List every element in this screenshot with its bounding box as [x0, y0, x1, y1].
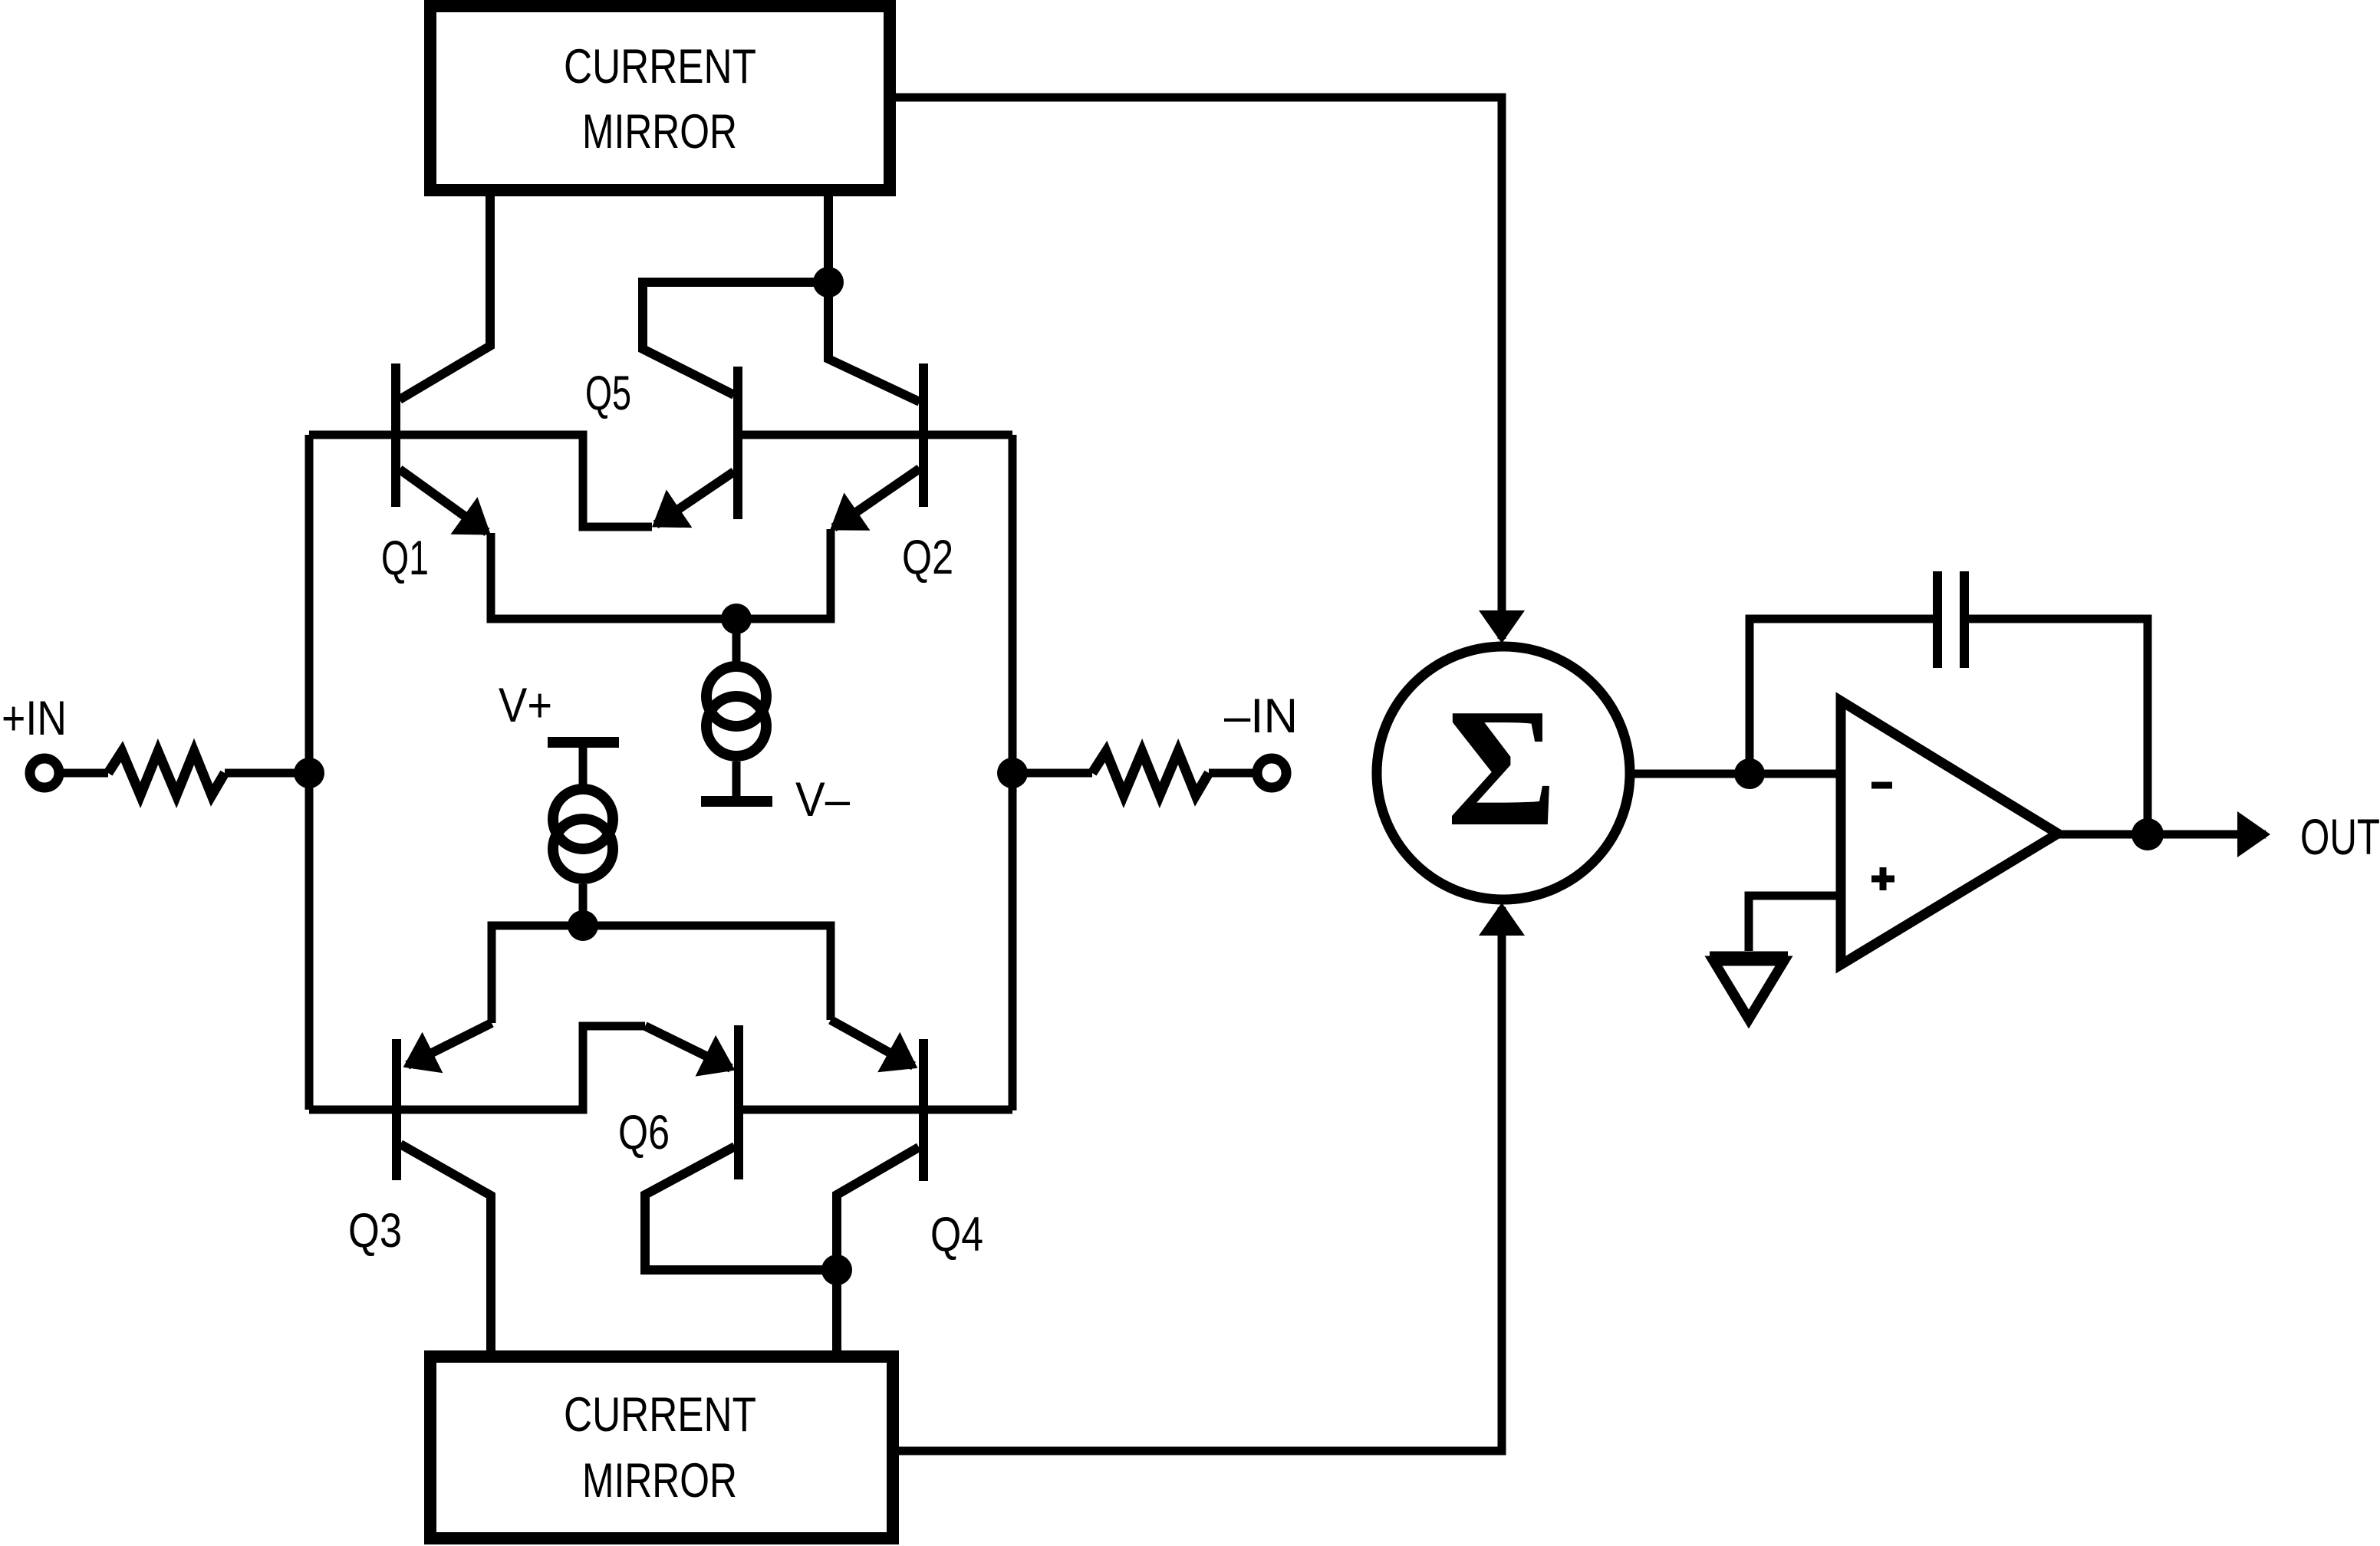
- wire from -IN node: [1012, 769, 1092, 778]
- svg-text:V–: V–: [795, 773, 850, 827]
- node +IN rail: [294, 758, 324, 788]
- node: bottom emitter junction: [568, 910, 598, 941]
- svg-text:Q4: Q4: [930, 1208, 983, 1261]
- wire: bottom base rail right segment: [734, 1106, 1012, 1114]
- node: Q4 collector junction: [821, 1255, 852, 1285]
- current mirror box (bottom): [430, 1357, 893, 1538]
- wire: bottom emitter rail: [492, 926, 831, 1023]
- wire: non-inverting input to ground: [1749, 896, 1841, 951]
- node: output junction: [2131, 818, 2164, 850]
- resistor R2 (-IN): [1092, 752, 1209, 795]
- wire to +IN node: [225, 769, 309, 778]
- wire: bottom box right to sigma (horizontal): [897, 947, 1502, 1451]
- node: inverting input junction: [1734, 758, 1765, 789]
- svg-text:OUT: OUT: [2300, 808, 2380, 865]
- op-amp minus label: [1871, 782, 1892, 789]
- wire: feedback right: [1969, 619, 2148, 834]
- svg-text:CURRENT: CURRENT: [564, 1388, 756, 1442]
- wire: top base rail left segment: [309, 435, 652, 527]
- left rail wire (+IN node vertical): [305, 435, 314, 1110]
- transistor Q3: [397, 1023, 492, 1357]
- op-amp plus label: [1871, 867, 1894, 890]
- wire arrow into sigma bottom: [1498, 907, 1506, 955]
- terminal -IN: [1257, 758, 1286, 788]
- transistor Q5: [643, 282, 828, 525]
- transistor Q1: [396, 190, 490, 532]
- op-amp U1: [1841, 701, 2058, 965]
- transistor Q2: [828, 190, 923, 528]
- transistor Q6: [645, 1025, 837, 1270]
- svg-text:–IN: –IN: [1224, 689, 1298, 743]
- svg-text:Q1: Q1: [381, 531, 429, 585]
- resistor R1 (+IN): [108, 752, 225, 795]
- wire to -IN terminal: [1209, 769, 1257, 778]
- transistor Q4: [831, 1020, 923, 1357]
- svg-text:Q3: Q3: [348, 1204, 402, 1258]
- wire: top box right to sigma (horizontal): [893, 97, 1502, 606]
- summer circle: [1377, 646, 1630, 900]
- wire: bottom base rail left segment: [309, 1026, 645, 1110]
- svg-text:MIRROR: MIRROR: [582, 1454, 737, 1508]
- svg-text:MIRROR: MIRROR: [582, 105, 737, 159]
- node -IN rail: [997, 758, 1028, 788]
- right rail wire (-IN node vertical): [1009, 435, 1017, 1110]
- svg-text:Q2: Q2: [902, 531, 953, 584]
- current source I1 (to V-): [701, 619, 772, 801]
- svg-text:Q6: Q6: [618, 1106, 670, 1159]
- wire from +IN terminal: [59, 769, 108, 778]
- terminal +IN: [30, 758, 59, 788]
- wire: output with arrow: [2058, 831, 2266, 839]
- node: Q2 collector junction: [813, 267, 844, 298]
- wire: top emitter rail: [491, 529, 831, 619]
- current source I2 (from V+): [548, 742, 619, 926]
- capacitor C1: [1937, 571, 1964, 668]
- current mirror box (top): [430, 6, 890, 190]
- svg-text:CURRENT: CURRENT: [564, 40, 756, 94]
- wire: feedback left vertical: [1750, 619, 1933, 774]
- svg-text:+IN: +IN: [2, 692, 67, 745]
- wire arrow into sigma top: [1498, 598, 1506, 639]
- wire: sigma output: [1630, 770, 1836, 778]
- ground: [1710, 956, 1788, 1019]
- svg-text:V+: V+: [499, 679, 552, 732]
- wire: top base rail right segment: [734, 431, 1012, 439]
- svg-text:Σ: Σ: [1447, 673, 1558, 861]
- svg-text:Q5: Q5: [585, 367, 631, 420]
- node: top emitter junction: [721, 604, 752, 634]
